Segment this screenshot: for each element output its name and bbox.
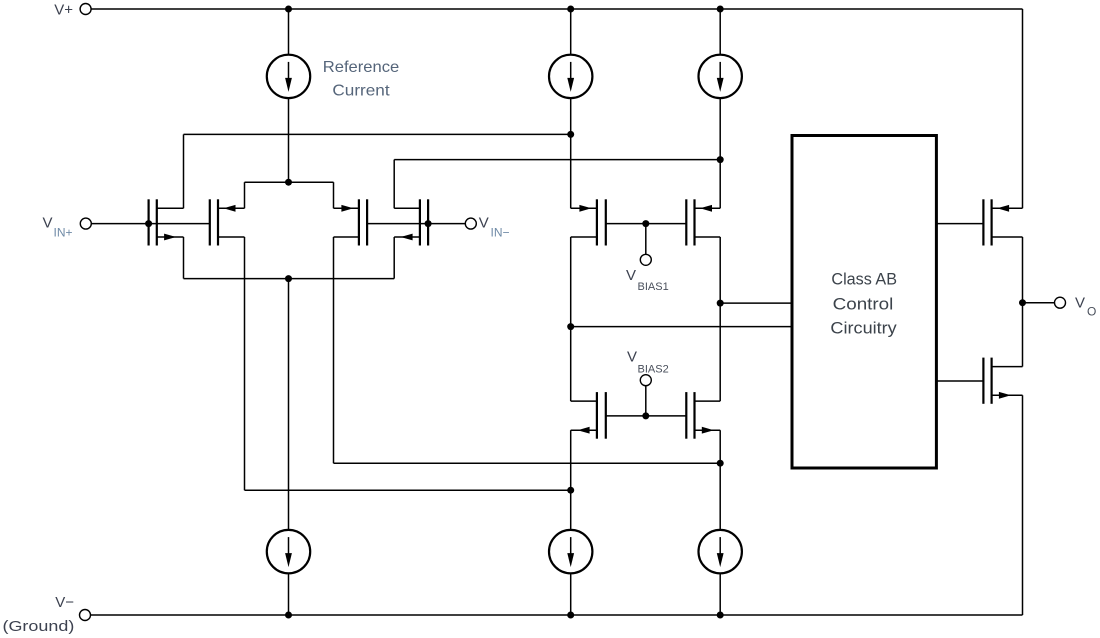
- svg-text:BIAS1: BIAS1: [638, 281, 669, 293]
- transistor Q1 (input N, VIN+): [149, 199, 184, 245]
- wire Q1 drain up and across to column B: [183, 134, 185, 208]
- wire column B to class AB box: [571, 326, 792, 328]
- VIN+ terminal: [80, 218, 91, 229]
- transistor Q6 (cascode P right): [686, 199, 720, 245]
- current source I2: [549, 55, 592, 98]
- wire column B between cascodes: [570, 237, 572, 401]
- wire N-pair tail down to I4: [288, 279, 290, 530]
- wire Q4 drain up and across to column C: [393, 160, 395, 209]
- wire VBIAS1 gate bus: [606, 223, 687, 225]
- wire right edge from V+ rail down to Q9 source: [1022, 9, 1024, 208]
- node V- rail / I6: [717, 612, 724, 619]
- transistor Q3 (input P, VIN-): [334, 199, 368, 245]
- wire I5 to V- rail: [570, 573, 572, 615]
- wire bottom rail: [91, 614, 1023, 616]
- node column C to class AB input: [717, 300, 724, 307]
- wire Q10 drain down to V- rail: [1022, 395, 1024, 615]
- node top rail / reference column: [285, 6, 292, 13]
- svg-text:V: V: [627, 349, 637, 366]
- wire output node: [1022, 237, 1024, 367]
- wire column B lower to I5: [570, 430, 572, 530]
- node Q3 drain joins column C: [717, 460, 724, 467]
- svg-text:IN+: IN+: [54, 226, 73, 240]
- wire VIN+ to gates of Q1,Q2: [91, 223, 210, 225]
- block U1 Class AB Control Circuitry: [792, 136, 936, 469]
- wire VIN- to gates of Q3,Q4: [367, 223, 465, 225]
- wire column C lower to I6: [719, 430, 721, 530]
- node V- rail / I5: [567, 612, 574, 619]
- transistor Q7 (cascode N left): [571, 392, 606, 439]
- wire I6 to V- rail: [719, 573, 721, 615]
- VBIAS2 terminal: [640, 375, 651, 386]
- transistor Q9 (output P): [983, 199, 1022, 245]
- node N-pair tail: [285, 275, 292, 282]
- node output: [1019, 299, 1026, 306]
- wire N-pair tail bracket: [183, 237, 185, 279]
- svg-text:V: V: [42, 215, 52, 232]
- V- terminal: [80, 610, 91, 621]
- wire VBIAS2 gate bus: [606, 415, 687, 417]
- node Q1 drain to cascode B column: [567, 131, 574, 138]
- wire V+ to I3: [719, 9, 721, 55]
- svg-text:V: V: [1075, 295, 1085, 312]
- wire I3 down to Q6 source: [719, 98, 721, 208]
- svg-text:Control: Control: [833, 295, 894, 314]
- svg-text:Reference: Reference: [323, 59, 400, 76]
- svg-text:(Ground): (Ground): [3, 618, 75, 635]
- svg-text:Class AB: Class AB: [831, 270, 897, 289]
- wire V+ to I1: [288, 9, 290, 55]
- current source I3: [699, 55, 742, 98]
- svg-text:V+: V+: [54, 1, 73, 18]
- current source I6: [699, 530, 742, 573]
- wire column C to class AB box: [720, 302, 792, 304]
- wire VBIAS2 stub: [645, 386, 647, 416]
- wire output stub: [1023, 302, 1055, 304]
- wire I2 down to Q5 source: [570, 98, 572, 208]
- node top rail / third column: [717, 6, 724, 13]
- transistor Q5 (cascode P left): [571, 199, 606, 245]
- svg-text:Circuitry: Circuitry: [830, 318, 897, 337]
- transistor Q4 (input N, VIN-): [394, 199, 428, 245]
- transistor Q8 (cascode N right): [686, 392, 720, 439]
- svg-text:V: V: [479, 215, 489, 232]
- current source I1 (reference): [267, 55, 310, 98]
- VO terminal: [1055, 297, 1066, 308]
- node VIN- on Q4 gate: [425, 220, 432, 227]
- wire class AB box to Q10 gate: [936, 380, 983, 382]
- wire Q2 drain down and across to column B lower: [244, 237, 246, 490]
- V+ terminal: [80, 4, 91, 15]
- wire top rail: [91, 8, 1022, 10]
- node Q4 drain to cascode C column: [717, 156, 724, 163]
- wire column C between cascodes: [719, 237, 721, 401]
- svg-text:BIAS2: BIAS2: [638, 364, 669, 376]
- wire class AB box to Q9 gate: [936, 223, 983, 225]
- node V- rail / I4: [285, 612, 292, 619]
- wire P-pair tail bracket: [245, 181, 334, 183]
- VBIAS1 terminal: [640, 254, 651, 265]
- transistor Q2 (input P, VIN+): [210, 199, 245, 245]
- node VBIAS1: [642, 220, 649, 227]
- svg-text:O: O: [1087, 305, 1096, 319]
- wire I4 to V- rail: [288, 573, 290, 615]
- VIN- terminal: [465, 218, 476, 229]
- transistor Q10 (output N): [983, 358, 1022, 404]
- wire V+ to I2: [570, 9, 572, 55]
- svg-text:V: V: [626, 267, 636, 284]
- node column B to class AB input: [567, 323, 574, 330]
- svg-text:Current: Current: [332, 83, 390, 100]
- node P-pair tail: [285, 179, 292, 186]
- svg-text:IN−: IN−: [491, 226, 510, 240]
- current source I5: [549, 530, 592, 573]
- current source I4: [267, 530, 310, 573]
- node VBIAS2: [642, 412, 649, 419]
- node top rail / second column: [567, 6, 574, 13]
- wire I1 down to P-pair tail node: [288, 98, 290, 182]
- wire Q3 drain down and across to column C lower: [333, 237, 335, 463]
- node VIN+ on Q1 gate: [145, 220, 152, 227]
- node Q2 drain joins column B: [567, 487, 574, 494]
- wire VBIAS1 stub: [645, 224, 647, 255]
- svg-text:V−: V−: [55, 594, 74, 611]
